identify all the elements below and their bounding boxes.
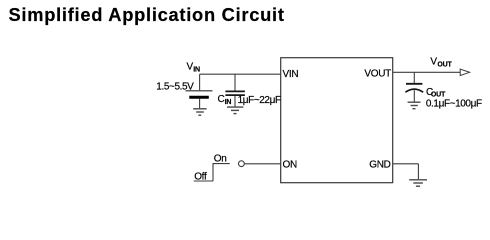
- svg-text:1μF~22μF: 1μF~22μF: [238, 95, 281, 106]
- svg-text:VIN: VIN: [283, 69, 299, 80]
- svg-text:Off: Off: [194, 172, 207, 183]
- svg-text:C: C: [218, 94, 225, 105]
- svg-text:1.5~5.5V: 1.5~5.5V: [156, 82, 194, 93]
- svg-text:OUT: OUT: [431, 92, 446, 99]
- svg-text:ON: ON: [283, 159, 297, 170]
- svg-text:GND: GND: [369, 159, 390, 170]
- svg-text:Simplified Application Circuit: Simplified Application Circuit: [9, 4, 285, 25]
- svg-text:IN: IN: [225, 99, 232, 106]
- svg-text:0.1μF~100μF: 0.1μF~100μF: [426, 98, 482, 109]
- svg-text:VOUT: VOUT: [364, 69, 391, 80]
- svg-text:V: V: [430, 57, 437, 68]
- svg-text:IN: IN: [193, 67, 200, 74]
- svg-text:On: On: [214, 153, 227, 164]
- svg-text:OUT: OUT: [437, 61, 452, 68]
